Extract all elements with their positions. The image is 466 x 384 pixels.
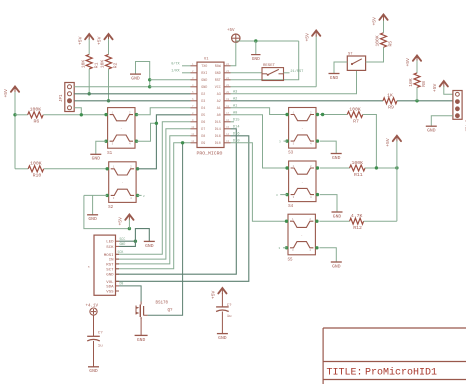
node J5b bbox=[148, 85, 151, 88]
wire D4 jog bbox=[137, 108, 191, 115]
svg-text:100K: 100K bbox=[30, 161, 42, 167]
svg-text:GND: GND bbox=[332, 263, 341, 269]
svg-text:D14: D14 bbox=[215, 128, 221, 132]
wire S2 bottom-left bbox=[84, 194, 107, 196]
wire S5 top-right to R12 bbox=[319, 220, 349, 222]
svg-text:GND: GND bbox=[332, 155, 341, 161]
wire S5 bottom-left stub bbox=[279, 247, 287, 250]
wire R8 top stem bbox=[416, 61, 418, 74]
svg-text:+4.1V: +4.1V bbox=[86, 305, 99, 309]
svg-text:+5V: +5V bbox=[432, 83, 438, 92]
svg-text:D15: D15 bbox=[215, 121, 221, 125]
wire S7 left to GND bbox=[334, 62, 347, 74]
svg-text:GND: GND bbox=[92, 156, 101, 162]
svg-text:D5: D5 bbox=[201, 114, 205, 118]
svg-text:A0: A0 bbox=[217, 114, 221, 118]
svg-text:10: 10 bbox=[191, 126, 195, 129]
svg-text:S2: S2 bbox=[108, 206, 114, 210]
ground GND1 bbox=[130, 74, 141, 81]
svg-text:Q?: Q? bbox=[168, 309, 174, 313]
svg-text:-: - bbox=[301, 233, 303, 237]
svg-text:1u: 1u bbox=[227, 315, 232, 319]
svg-text:+5V: +5V bbox=[372, 17, 378, 26]
svg-text:ProMicroHID1: ProMicroHID1 bbox=[365, 367, 437, 379]
svg-text:1K: 1K bbox=[387, 93, 393, 99]
wire TXO stub bbox=[171, 62, 190, 67]
wire R1 top stem bbox=[88, 39, 90, 54]
svg-text:18: 18 bbox=[226, 105, 230, 108]
IC U1 PRO_MICRO bbox=[191, 58, 231, 157]
svg-text:GND: GND bbox=[88, 216, 97, 222]
svg-text:SCK: SCK bbox=[106, 246, 114, 250]
wire S1 bottom-right jog bbox=[137, 123, 157, 141]
ground GND13 bbox=[426, 126, 437, 133]
wire D10 to S5 bbox=[231, 143, 286, 221]
svg-text:13: 13 bbox=[226, 140, 230, 143]
svg-text:A2: A2 bbox=[217, 100, 221, 104]
svg-text:R6: R6 bbox=[34, 119, 40, 125]
svg-text:D9: D9 bbox=[120, 282, 124, 286]
svg-text:23: 23 bbox=[226, 70, 230, 73]
ground GND11 bbox=[332, 212, 343, 219]
ground GND6 bbox=[88, 367, 99, 374]
wire D14 bundle bbox=[116, 129, 237, 274]
wire 100K row to S1 bbox=[15, 114, 106, 116]
supply +5V arrow PWR8 bbox=[372, 15, 388, 26]
svg-text:JP1: JP1 bbox=[60, 94, 64, 102]
svg-text:4.7K: 4.7K bbox=[351, 213, 363, 219]
svg-text:D16: D16 bbox=[233, 132, 239, 136]
svg-text:D10: D10 bbox=[233, 139, 239, 143]
svg-text:GND: GND bbox=[333, 213, 342, 219]
ground GND9 bbox=[329, 74, 340, 81]
wire JP1 pin3 D3 net bbox=[74, 100, 190, 102]
capacitor C1 bbox=[87, 331, 103, 348]
svg-text:TXO: TXO bbox=[201, 65, 207, 69]
wire A1 to S3 bbox=[231, 108, 288, 115]
ground GND3 bbox=[87, 215, 98, 222]
wire S7 right to R5 bbox=[366, 47, 384, 62]
wire GND net stub bbox=[255, 41, 257, 55]
wire IC GND row4 bbox=[150, 86, 191, 88]
wire JP1 pin1 GND net bbox=[74, 86, 150, 88]
node J6 bbox=[128, 227, 131, 230]
node J9 bbox=[134, 240, 137, 243]
svg-text:R2: R2 bbox=[113, 62, 119, 68]
wire RXI stub bbox=[171, 69, 190, 74]
svg-text:S3: S3 bbox=[288, 152, 294, 156]
wire RAW to +5V bbox=[231, 42, 236, 65]
supply +5V flag PWR6 bbox=[227, 29, 240, 43]
transistor Q1 bbox=[136, 302, 173, 320]
wire R7 corner down bbox=[363, 115, 377, 168]
switch S5 bbox=[285, 214, 319, 262]
svg-text:21/RST: 21/RST bbox=[290, 69, 304, 74]
wire U2 r9 to Q1 bbox=[119, 282, 141, 302]
wire VCC to +5V bbox=[231, 86, 317, 88]
wire R9 to JP2 bbox=[397, 100, 453, 102]
wire S2 bottom-right stub bbox=[137, 195, 145, 198]
wire D16 bundle bbox=[116, 136, 249, 281]
svg-text:1/RX: 1/RX bbox=[171, 69, 180, 74]
wire IC GND row3 bbox=[150, 79, 191, 81]
ground GND2 bbox=[90, 154, 101, 161]
wire R5 top stem bbox=[383, 20, 385, 33]
wire +5V rail left vertical bbox=[14, 92, 16, 169]
wire 100K row to S2 bbox=[15, 168, 107, 170]
svg-text:D14: D14 bbox=[233, 125, 239, 129]
wire D9 to Q1 gate bbox=[148, 143, 183, 315]
svg-text:R12: R12 bbox=[353, 225, 362, 231]
wire JP2 pin1 to +5V bbox=[444, 86, 453, 94]
svg-text:A0: A0 bbox=[233, 111, 237, 115]
svg-text:10K: 10K bbox=[80, 60, 86, 69]
wire C1 bottom stem bbox=[93, 341, 95, 367]
svg-text:S1: S1 bbox=[107, 152, 113, 156]
svg-text:-: - bbox=[301, 126, 303, 130]
svg-text:GND: GND bbox=[131, 76, 140, 82]
wire S4 bottom-left stub bbox=[276, 194, 287, 197]
svg-text:100K: 100K bbox=[349, 106, 361, 112]
svg-text:VCC: VCC bbox=[215, 86, 221, 90]
ground GND4 bbox=[144, 241, 155, 248]
svg-text:16: 16 bbox=[226, 119, 230, 122]
svg-text:R9: R9 bbox=[388, 105, 394, 111]
svg-text:-: - bbox=[120, 126, 122, 130]
supply +5V arrow PWR7 bbox=[304, 31, 320, 42]
wire GND hook bbox=[136, 62, 150, 87]
wire S3 bottom-left stub bbox=[279, 140, 287, 143]
svg-text:LED: LED bbox=[106, 241, 114, 245]
svg-text:GND: GND bbox=[252, 56, 260, 62]
svg-text:+5V: +5V bbox=[385, 138, 391, 147]
wire JP1 pin2 D2 net bbox=[74, 93, 190, 95]
wire D9 bundle bbox=[116, 143, 191, 269]
svg-text:+5V: +5V bbox=[405, 58, 411, 67]
wire +5V top rail bbox=[236, 40, 299, 42]
wire RESET right net bbox=[284, 69, 305, 74]
wire D6 bundle bbox=[116, 122, 191, 255]
wire R2 bottom stem bbox=[108, 69, 110, 101]
node J1 bbox=[13, 113, 16, 116]
svg-text:C?: C? bbox=[227, 304, 232, 308]
ground GND5 bbox=[135, 335, 148, 342]
wire R11 right bbox=[365, 167, 397, 169]
svg-text:BS170: BS170 bbox=[156, 302, 169, 306]
svg-text:R11: R11 bbox=[354, 172, 363, 178]
svg-text:+5V: +5V bbox=[227, 29, 235, 33]
svg-text:0/TX: 0/TX bbox=[171, 62, 180, 67]
svg-text:RST: RST bbox=[215, 79, 221, 83]
svg-text:S7: S7 bbox=[348, 53, 353, 57]
svg-text:+5V: +5V bbox=[77, 36, 83, 45]
svg-text:D15: D15 bbox=[233, 118, 239, 122]
svg-text:D3: D3 bbox=[201, 100, 205, 104]
wire S4 bottom-right to GND bbox=[320, 195, 337, 212]
svg-text:D4: D4 bbox=[201, 107, 205, 111]
svg-text:21: 21 bbox=[226, 84, 230, 87]
ground GND8 bbox=[251, 55, 260, 62]
svg-text:RESET: RESET bbox=[263, 64, 276, 68]
wire +5V stem long bbox=[396, 141, 398, 221]
node J5 bbox=[148, 78, 151, 81]
wire S4 top-right to R11 bbox=[320, 167, 350, 169]
resistor R5 100K bbox=[375, 33, 394, 48]
svg-text:20: 20 bbox=[226, 91, 230, 94]
svg-text:100K: 100K bbox=[375, 35, 381, 46]
svg-text:RXI: RXI bbox=[201, 72, 207, 76]
wire C2 top stem bbox=[221, 293, 223, 307]
supply +5V arrow PWR4 bbox=[118, 215, 134, 226]
svg-text:1u: 1u bbox=[98, 345, 103, 349]
resistor R7 100K bbox=[347, 106, 363, 124]
wire C1 top stem bbox=[93, 315, 95, 336]
svg-text:RST: RST bbox=[106, 263, 114, 267]
wire S3 bottom-right to GND bbox=[320, 141, 336, 153]
wire A2 long bbox=[231, 100, 384, 102]
wire JP1 pin4 jog bbox=[74, 108, 81, 115]
node J11 bbox=[415, 99, 418, 102]
svg-text:GND: GND bbox=[201, 86, 207, 90]
svg-text:GND: GND bbox=[427, 128, 436, 134]
supply +5V arrow PWR11 bbox=[432, 81, 448, 92]
wire top rail down to RST bbox=[231, 41, 299, 80]
wire U2 r2 GND staple bbox=[119, 229, 149, 247]
wire S3 top-right to R7 bbox=[320, 114, 347, 116]
svg-text:D8: D8 bbox=[201, 135, 205, 139]
svg-text:GND: GND bbox=[120, 242, 126, 246]
switch S1 bbox=[104, 108, 138, 156]
wire Q1 source to GND bbox=[140, 318, 142, 335]
svg-text:11: 11 bbox=[191, 133, 195, 136]
wire S1 bottom-left to GND bbox=[96, 141, 106, 154]
svg-text:+5V: +5V bbox=[211, 290, 217, 299]
svg-text:A1: A1 bbox=[233, 104, 237, 108]
svg-text:17: 17 bbox=[226, 112, 230, 115]
ground GND7 bbox=[217, 334, 228, 341]
svg-text:S4: S4 bbox=[288, 205, 294, 209]
svg-text:+5V: +5V bbox=[3, 89, 9, 98]
svg-text:GND: GND bbox=[145, 243, 154, 249]
supply +5V arrow PWR9 bbox=[385, 136, 401, 147]
switch S2 bbox=[106, 162, 140, 210]
ground GND10 bbox=[331, 154, 342, 161]
svg-text:RAW: RAW bbox=[215, 65, 222, 69]
svg-text:S5: S5 bbox=[287, 258, 293, 262]
wire A0 to S4 bbox=[231, 115, 288, 168]
wire D5 jog bbox=[137, 115, 190, 169]
svg-text:14: 14 bbox=[226, 133, 230, 136]
supply +5V arrow PWR3 bbox=[97, 34, 113, 45]
svg-text:IN: IN bbox=[109, 259, 114, 263]
supply +5V arrow PWR5 bbox=[211, 288, 227, 299]
wire +5V stem A4 bbox=[315, 36, 317, 87]
wire D8 bundle bbox=[116, 136, 191, 264]
svg-text:*: * bbox=[88, 267, 91, 272]
svg-text:GND: GND bbox=[89, 368, 98, 374]
svg-text:VOL: VOL bbox=[106, 281, 114, 285]
resistor R10 100K bbox=[28, 161, 44, 179]
node J12 bbox=[321, 113, 324, 116]
wire IC row2 to RESET bbox=[231, 72, 263, 74]
wire JP2 pin4 to GND bbox=[431, 116, 453, 127]
svg-text:100K: 100K bbox=[30, 107, 42, 113]
svg-text:A3: A3 bbox=[233, 90, 237, 94]
svg-text:R7: R7 bbox=[353, 118, 359, 124]
svg-text:VSS: VSS bbox=[106, 291, 114, 295]
supply +5V arrow PWR2 bbox=[77, 34, 93, 45]
svg-text:A1: A1 bbox=[217, 107, 221, 111]
node J7 bbox=[155, 122, 158, 125]
svg-text:C?: C? bbox=[98, 331, 103, 335]
svg-text:12: 12 bbox=[191, 140, 195, 143]
wire U2 r1 bbox=[119, 237, 135, 241]
node J3 bbox=[107, 99, 110, 102]
svg-text:R8: R8 bbox=[421, 81, 427, 87]
svg-text:24: 24 bbox=[226, 63, 230, 66]
svg-text:5CC: 5CC bbox=[120, 237, 126, 241]
svg-text:15: 15 bbox=[226, 126, 230, 129]
svg-text:D9: D9 bbox=[201, 142, 205, 146]
wire S2 bottom-left down bbox=[84, 195, 129, 228]
node J2 bbox=[88, 92, 91, 95]
svg-text:+5V: +5V bbox=[118, 217, 124, 226]
ground GND12 bbox=[331, 262, 342, 269]
svg-text:R5: R5 bbox=[388, 41, 394, 47]
wire R8 bottom stem bbox=[416, 87, 418, 101]
resistor R9 1K bbox=[383, 93, 397, 111]
svg-text:R10: R10 bbox=[33, 173, 42, 179]
svg-text:D16: D16 bbox=[215, 135, 221, 139]
svg-text:PRO_MICRO: PRO_MICRO bbox=[197, 151, 223, 157]
switch RESET bbox=[262, 64, 284, 80]
svg-text:TITLE:: TITLE: bbox=[327, 368, 363, 379]
svg-text:19: 19 bbox=[226, 98, 230, 101]
svg-text:D2: D2 bbox=[201, 93, 205, 97]
svg-text:MOSI: MOSI bbox=[104, 254, 114, 258]
switch S3 bbox=[285, 108, 319, 156]
svg-text:A2: A2 bbox=[233, 97, 237, 101]
svg-text:U1: U1 bbox=[204, 58, 209, 62]
wire C2 bottom stem bbox=[221, 312, 223, 334]
node J13 bbox=[375, 166, 378, 169]
connector U2 bbox=[88, 235, 120, 295]
resistor R8 10K bbox=[408, 73, 427, 88]
net labels right bbox=[233, 90, 239, 143]
node J8 bbox=[181, 141, 184, 144]
resistor R2 10K bbox=[100, 54, 119, 68]
svg-text:22: 22 bbox=[226, 77, 230, 80]
supply +4.1V flag bbox=[86, 305, 99, 316]
svg-text:GND: GND bbox=[330, 75, 339, 81]
resistor R6 100K bbox=[28, 107, 44, 125]
svg-text:GND: GND bbox=[137, 337, 146, 343]
wire arrow stem bbox=[128, 220, 130, 229]
svg-text:D6: D6 bbox=[201, 121, 205, 125]
supply +5V arrow PWR10 bbox=[405, 56, 421, 67]
switch S4 bbox=[285, 161, 319, 209]
wire R1 bottom stem bbox=[88, 69, 90, 94]
wire A3 long bbox=[231, 70, 357, 93]
capacitor C2 bbox=[216, 304, 232, 319]
svg-text:10K: 10K bbox=[100, 60, 106, 69]
wire R12 right bbox=[364, 220, 397, 222]
svg-text:10K: 10K bbox=[408, 78, 414, 87]
svg-text:R1: R1 bbox=[93, 62, 99, 68]
wire S2 GND stem bbox=[92, 195, 94, 214]
svg-text:SDA: SDA bbox=[106, 285, 114, 289]
connector JP1 bbox=[60, 83, 74, 112]
node J14 bbox=[395, 166, 398, 169]
svg-text:GND: GND bbox=[215, 72, 221, 76]
svg-text:100K: 100K bbox=[352, 160, 364, 166]
svg-text:D10: D10 bbox=[215, 142, 221, 146]
svg-text:-: - bbox=[301, 180, 303, 184]
svg-text:5CK: 5CK bbox=[118, 250, 124, 254]
wire D15 stub bbox=[231, 121, 235, 123]
svg-text:D7: D7 bbox=[201, 128, 205, 132]
resistor R1 10K bbox=[80, 54, 99, 68]
wire R2 top stem bbox=[108, 39, 110, 54]
svg-text:GND: GND bbox=[218, 335, 227, 341]
svg-text:A3: A3 bbox=[217, 93, 221, 97]
svg-text:+5V: +5V bbox=[304, 33, 310, 42]
svg-text:SCT: SCT bbox=[106, 268, 114, 272]
switch S7 bbox=[347, 53, 365, 71]
wire D7 bundle bbox=[116, 129, 191, 259]
resistor R12 4.7K bbox=[350, 213, 364, 231]
title block bbox=[323, 328, 466, 384]
svg-text:GND: GND bbox=[106, 274, 114, 278]
svg-text:-: - bbox=[121, 181, 123, 185]
svg-text:GND: GND bbox=[201, 79, 207, 83]
node J10 bbox=[254, 39, 257, 42]
connector JP2 bbox=[453, 91, 466, 133]
svg-text:+5V: +5V bbox=[97, 36, 103, 45]
resistor R11 100K bbox=[350, 160, 366, 178]
wire S5 bottom-right to GND bbox=[319, 248, 336, 262]
supply +5V arrow PWR1 bbox=[3, 87, 19, 98]
node J4 bbox=[80, 113, 83, 116]
